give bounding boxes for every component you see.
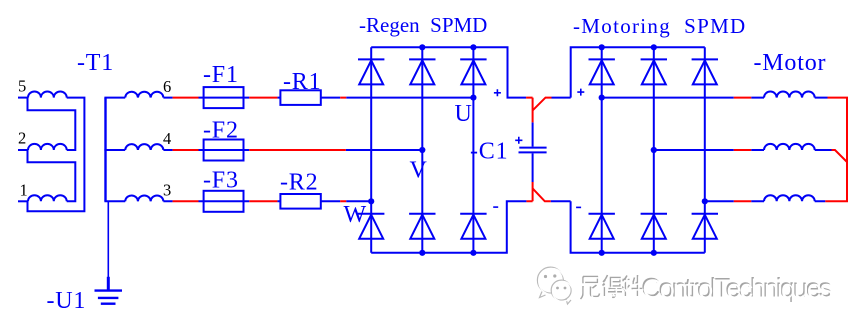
- svg-text:ControlTechniques: ControlTechniques: [642, 274, 833, 304]
- svg-text:4: 4: [163, 129, 171, 148]
- svg-text:6: 6: [163, 77, 171, 96]
- svg-text:-F1: -F1: [203, 62, 239, 88]
- svg-text:1: 1: [20, 181, 28, 200]
- svg-text:5: 5: [18, 77, 26, 96]
- svg-text:-U1: -U1: [47, 288, 87, 314]
- svg-text:-Motor: -Motor: [754, 50, 827, 76]
- svg-text:V: V: [410, 158, 428, 184]
- svg-text:-R2: -R2: [280, 170, 318, 196]
- svg-text:W: W: [344, 202, 367, 228]
- svg-text:-Motoring SPMD: -Motoring SPMD: [573, 14, 747, 38]
- svg-text:U: U: [455, 101, 473, 127]
- svg-text:-R1: -R1: [283, 69, 321, 95]
- svg-text:2: 2: [18, 129, 26, 148]
- svg-text:-F2: -F2: [203, 117, 239, 143]
- svg-text:3: 3: [163, 181, 171, 200]
- svg-text:-C1: -C1: [470, 139, 508, 165]
- svg-text:-Regen SPMD: -Regen SPMD: [359, 13, 487, 37]
- svg-text:-T1: -T1: [77, 50, 114, 76]
- svg-text:-F3: -F3: [203, 168, 239, 194]
